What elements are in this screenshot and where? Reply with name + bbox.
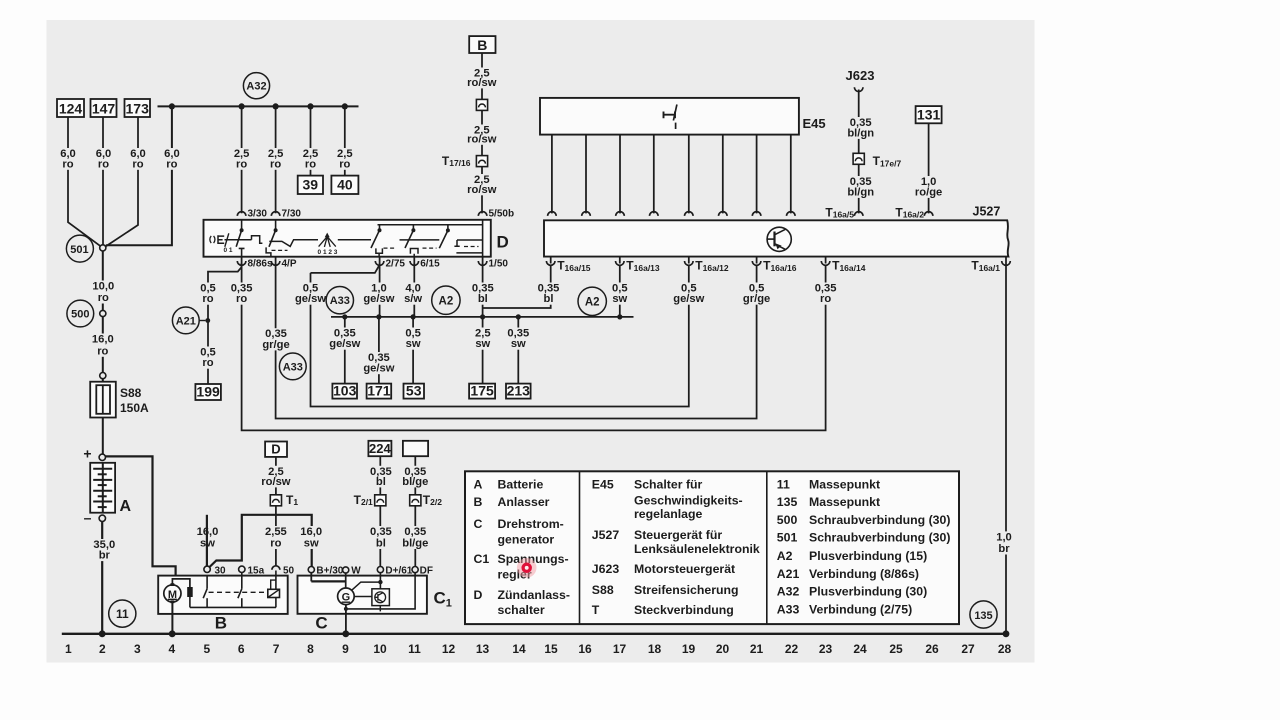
voltage regulator C1 bbox=[372, 589, 390, 606]
svg-text:A2: A2 bbox=[439, 295, 454, 307]
connector T2/2 bbox=[410, 495, 421, 506]
svg-text:500: 500 bbox=[71, 309, 89, 321]
wire 0,35 sw to 213 bbox=[517, 317, 519, 384]
svg-text:53: 53 bbox=[406, 383, 422, 399]
terminal box 124 bbox=[57, 99, 84, 117]
svg-text:bl/gn: bl/gn bbox=[847, 186, 874, 198]
svg-text:4: 4 bbox=[168, 642, 175, 656]
pin 8/86s bbox=[237, 261, 246, 265]
switch D pole 2/75 bbox=[379, 225, 381, 230]
connector T2/1 bbox=[375, 495, 386, 506]
pin T16a/13 stub bbox=[619, 257, 621, 264]
svg-text:28: 28 bbox=[998, 642, 1012, 656]
svg-text:7: 7 bbox=[273, 642, 280, 656]
wire 1,0 br from T16a/1 to ground rail bbox=[1005, 257, 1007, 634]
switch D pole 7/30-4/P bbox=[275, 220, 277, 230]
terminal box 147 bbox=[91, 99, 117, 117]
pin T16a/15 stub bbox=[550, 257, 552, 264]
svg-text:s/w: s/w bbox=[404, 293, 422, 305]
svg-text:ro: ro bbox=[166, 158, 177, 170]
svg-text:131: 131 bbox=[917, 107, 941, 123]
legend table bbox=[465, 471, 959, 624]
junction battery ground bbox=[99, 630, 106, 637]
ground rail bbox=[62, 633, 1006, 635]
pin on J527 bbox=[787, 212, 796, 216]
transistor symbol in J527 bbox=[767, 227, 791, 251]
wire 35,0 br battery to ground rail bbox=[101, 521, 103, 634]
svg-text:schalter: schalter bbox=[498, 603, 545, 617]
svg-text:A32: A32 bbox=[777, 585, 800, 599]
svg-text:ro: ro bbox=[132, 158, 143, 170]
svg-text:ro: ro bbox=[62, 158, 73, 170]
svg-text:Lenksäulenelektronik: Lenksäulenelektronik bbox=[634, 542, 760, 556]
junction T16a/1 ground bbox=[1003, 630, 1010, 637]
wire E45 to J527 bbox=[619, 135, 621, 214]
switch symbol in E45 bbox=[664, 112, 676, 119]
svg-text:Anlasser: Anlasser bbox=[498, 495, 550, 509]
terminal B+/30 bbox=[308, 567, 314, 573]
junction on 15-bus bbox=[617, 314, 622, 319]
pin T16a/14 stub bbox=[825, 257, 827, 264]
pin 2/75 bbox=[375, 261, 384, 265]
svg-text:J623: J623 bbox=[592, 562, 620, 576]
connection A33 (2/75) lower bbox=[279, 353, 306, 380]
switch D position selector 0123 bbox=[325, 233, 330, 238]
svg-text:0 1 2 3: 0 1 2 3 bbox=[318, 249, 338, 256]
wire 4,0 s/w from 6/15 bbox=[413, 263, 415, 317]
svg-text:135: 135 bbox=[777, 495, 798, 509]
svg-text:2/75: 2/75 bbox=[386, 258, 406, 269]
svg-text:D: D bbox=[474, 588, 483, 602]
svg-text:Massepunkt: Massepunkt bbox=[809, 478, 880, 492]
svg-text:Schraubverbindung (30): Schraubverbindung (30) bbox=[809, 531, 950, 545]
svg-text:11: 11 bbox=[408, 642, 421, 656]
svg-text:ro: ro bbox=[339, 158, 350, 170]
pin at J623 bbox=[854, 87, 863, 91]
svg-text:E45: E45 bbox=[592, 478, 614, 492]
junction on 15-bus bbox=[342, 314, 347, 319]
svg-text:D+/61: D+/61 bbox=[385, 565, 412, 576]
wire G to ground rail bbox=[345, 605, 347, 634]
connector T1 bbox=[270, 495, 281, 506]
svg-text:J527: J527 bbox=[973, 204, 1001, 218]
svg-text:ge/sw: ge/sw bbox=[363, 363, 394, 375]
generator C bbox=[298, 576, 427, 614]
svg-text:ro: ro bbox=[270, 538, 281, 550]
svg-text:501: 501 bbox=[70, 244, 88, 256]
pin 8/86s stub bbox=[241, 257, 243, 264]
wire M to ground rail bbox=[171, 602, 173, 634]
svg-text:ro: ro bbox=[98, 292, 109, 304]
svg-text:Drehstrom-: Drehstrom- bbox=[498, 517, 564, 531]
svg-text:2: 2 bbox=[99, 642, 106, 656]
wire 0,5 ge/sw to T16a/12 bbox=[311, 265, 689, 407]
svg-text:B: B bbox=[215, 614, 227, 633]
wire 16,0 sw starter 30 to generator B+/30 bbox=[210, 515, 312, 567]
starter contact 15a bbox=[241, 573, 243, 589]
ground point 135 label bbox=[970, 601, 997, 628]
pin 5/50b bbox=[478, 212, 487, 216]
svg-text:A2: A2 bbox=[777, 549, 793, 563]
svg-text:Geschwindigkeits-: Geschwindigkeits- bbox=[634, 494, 743, 508]
svg-text:15a: 15a bbox=[248, 565, 265, 576]
pin 7/30 bbox=[271, 212, 280, 216]
wire E45 to J527 bbox=[551, 135, 553, 214]
svg-text:173: 173 bbox=[126, 100, 150, 116]
svg-text:4/P: 4/P bbox=[282, 258, 297, 269]
svg-text:0,35: 0,35 bbox=[404, 526, 426, 538]
terminal box 173 bbox=[125, 99, 151, 117]
svg-text:C: C bbox=[315, 614, 327, 633]
svg-text:ro: ro bbox=[305, 158, 316, 170]
svg-text:0,35: 0,35 bbox=[370, 526, 392, 538]
pin 6/15 stub bbox=[413, 257, 415, 264]
svg-text:ro: ro bbox=[202, 293, 213, 305]
svg-text:ge/sw: ge/sw bbox=[673, 293, 704, 305]
svg-text:9: 9 bbox=[342, 642, 349, 656]
svg-text:10: 10 bbox=[373, 642, 387, 656]
switch D link rail to 50 bbox=[378, 224, 483, 226]
svg-text:Batterie: Batterie bbox=[498, 478, 544, 492]
pin T16a/5 bbox=[854, 212, 863, 216]
connection A2 (15) left bbox=[432, 286, 460, 314]
wire 6,0 ro from 124 bbox=[68, 117, 101, 246]
connection A2 (15) right bbox=[578, 287, 606, 315]
junction on 30-bus bbox=[307, 103, 313, 109]
svg-text:Motorsteuergerät: Motorsteuergerät bbox=[634, 562, 735, 576]
svg-text:bl: bl bbox=[376, 476, 386, 488]
svg-text:1,0: 1,0 bbox=[996, 531, 1012, 543]
wire 0,35 bl / 2,5 sw from 1/50 bbox=[482, 263, 484, 383]
svg-text:A: A bbox=[474, 478, 483, 492]
wire battery branch down to 30 bbox=[206, 515, 208, 566]
pin on J527 bbox=[548, 212, 557, 216]
junction on 15-bus bbox=[516, 314, 521, 319]
wire 6,0 ro from 147 bbox=[102, 117, 104, 245]
generator W internal bbox=[345, 573, 347, 588]
svg-text:135: 135 bbox=[974, 610, 992, 622]
switch D coupling dashes bbox=[272, 249, 288, 251]
wire E45 to J527 bbox=[790, 135, 792, 214]
ignition starter switch D bbox=[204, 220, 491, 257]
svg-text:A33: A33 bbox=[283, 361, 303, 373]
svg-text:B: B bbox=[474, 495, 483, 509]
starter solenoid contact bbox=[268, 589, 280, 597]
terminal 30 bbox=[204, 566, 210, 572]
svg-text:sw: sw bbox=[511, 338, 526, 350]
svg-text:19: 19 bbox=[682, 642, 696, 656]
svg-text:224: 224 bbox=[369, 441, 391, 456]
svg-text:0 1: 0 1 bbox=[223, 247, 232, 254]
junction on 30-bus bbox=[239, 103, 245, 109]
pin on J527 bbox=[685, 212, 694, 216]
svg-text:ge/sw: ge/sw bbox=[329, 338, 360, 350]
terminal box 103 bbox=[332, 384, 357, 399]
svg-text:Massepunkt: Massepunkt bbox=[809, 495, 880, 509]
svg-text:sw: sw bbox=[304, 538, 319, 550]
wire 30-bus bbox=[158, 105, 359, 107]
svg-text:ro/sw: ro/sw bbox=[467, 184, 497, 196]
svg-text:C1: C1 bbox=[474, 552, 490, 566]
svg-text:14: 14 bbox=[512, 642, 526, 656]
svg-text:ro: ro bbox=[202, 357, 213, 369]
starter internal bus bbox=[190, 606, 276, 608]
terminal 50 bbox=[272, 566, 280, 570]
wire E45 to J527 bbox=[688, 135, 690, 214]
junction on 15-bus bbox=[376, 314, 381, 319]
svg-text:Plusverbindung (30): Plusverbindung (30) bbox=[809, 585, 927, 599]
screw connection 501 label bbox=[66, 235, 93, 262]
node 501 bbox=[100, 245, 106, 251]
svg-text:sw: sw bbox=[475, 338, 490, 350]
svg-text:B+/30: B+/30 bbox=[316, 565, 343, 576]
svg-text:6: 6 bbox=[238, 642, 245, 656]
pin T16a/16 bbox=[752, 261, 761, 265]
wire 0,35 bl 224 to D+/61 bbox=[379, 456, 381, 566]
svg-text:175: 175 bbox=[470, 383, 494, 399]
svg-text:sw: sw bbox=[406, 338, 421, 350]
svg-text:ro/sw: ro/sw bbox=[467, 133, 497, 145]
svg-text:A32: A32 bbox=[246, 81, 266, 93]
connector T17e/7 bbox=[853, 153, 864, 164]
svg-text:W: W bbox=[351, 565, 361, 576]
svg-text:A2: A2 bbox=[585, 297, 600, 309]
svg-text:40: 40 bbox=[337, 177, 353, 193]
regulator transistor bbox=[375, 592, 386, 603]
pin T16a/1 bbox=[1002, 261, 1011, 265]
cruise control switch E45 bbox=[540, 98, 799, 135]
svg-text:39: 39 bbox=[303, 177, 319, 193]
svg-text:B: B bbox=[477, 37, 487, 53]
wire 10,0 ro bbox=[102, 251, 104, 310]
svg-text:D: D bbox=[271, 442, 280, 457]
generator DF internal bbox=[346, 573, 415, 609]
battery plates bbox=[93, 463, 112, 513]
svg-text:–: – bbox=[84, 509, 92, 525]
pin 1/50 bbox=[478, 261, 487, 265]
wire 0,5 ro from 8/86s to 199 bbox=[208, 263, 242, 384]
screw connection 500 label bbox=[67, 300, 94, 327]
svg-text:Schraubverbindung (30): Schraubverbindung (30) bbox=[809, 513, 950, 527]
svg-text:26: 26 bbox=[925, 642, 939, 656]
svg-text:gr/ge: gr/ge bbox=[743, 293, 770, 305]
wire 15-bus (A2) bbox=[331, 316, 634, 318]
wire 2,5 ro/sw B to 5/50b bbox=[481, 53, 483, 213]
starter coupling dashes bbox=[209, 591, 268, 593]
svg-text:ro: ro bbox=[236, 293, 247, 305]
connector T17/16 bbox=[476, 156, 487, 167]
terminal box 224 bbox=[368, 441, 391, 456]
svg-text:23: 23 bbox=[819, 642, 833, 656]
svg-text:16,0: 16,0 bbox=[300, 526, 322, 538]
svg-text:27: 27 bbox=[961, 642, 975, 656]
svg-text:1/50: 1/50 bbox=[489, 258, 509, 269]
wire bbox=[102, 379, 104, 382]
svg-text:bl: bl bbox=[376, 538, 386, 550]
svg-text:ro/sw: ro/sw bbox=[261, 476, 291, 488]
svg-text:Streifensicherung: Streifensicherung bbox=[634, 583, 739, 597]
svg-text:5: 5 bbox=[203, 642, 210, 656]
wire E45 to J527 bbox=[756, 135, 758, 214]
wire 1,0 ro/ge 131 to T16a/2 bbox=[928, 123, 930, 213]
strip fuse S88 150A bbox=[90, 382, 116, 418]
starter B bbox=[158, 576, 288, 614]
pin on J527 bbox=[616, 212, 625, 216]
terminal box B (starter +) bbox=[469, 36, 495, 53]
svg-text:S88: S88 bbox=[120, 386, 142, 400]
svg-text:C: C bbox=[474, 517, 483, 531]
steering column electronics control unit J527 bbox=[544, 220, 1009, 256]
pin T16a/12 bbox=[685, 261, 694, 265]
svg-text:sw: sw bbox=[612, 293, 627, 305]
svg-text:Verbindung (8/86s): Verbindung (8/86s) bbox=[809, 567, 919, 581]
svg-text:10,0: 10,0 bbox=[92, 281, 114, 293]
svg-text:gr/ge: gr/ge bbox=[262, 339, 289, 351]
pin T16a/13 bbox=[616, 261, 625, 265]
svg-text:E45: E45 bbox=[803, 116, 826, 131]
svg-text:11: 11 bbox=[116, 607, 129, 621]
svg-text:30: 30 bbox=[215, 565, 227, 576]
svg-text:15: 15 bbox=[544, 642, 558, 656]
svg-text:50: 50 bbox=[283, 565, 295, 576]
svg-text:A21: A21 bbox=[777, 567, 800, 581]
connection A33 (2/75) bbox=[326, 287, 353, 314]
field winding bbox=[189, 597, 191, 607]
legend divider 1 bbox=[579, 471, 581, 624]
pin 2/75 stub bbox=[379, 257, 381, 264]
svg-text:Steckverbindung: Steckverbindung bbox=[634, 603, 734, 617]
terminal box 131 bbox=[916, 106, 942, 123]
svg-text:T: T bbox=[592, 603, 600, 617]
wire 2,5 ro to terminal 39 bbox=[310, 106, 312, 175]
generator G symbol bbox=[338, 588, 355, 605]
starter contact 30 bbox=[206, 576, 208, 589]
connection A21 (8/86s) bbox=[172, 307, 199, 334]
connector bbox=[476, 99, 487, 110]
battery A bbox=[90, 463, 115, 513]
terminal box 53 bbox=[404, 384, 425, 399]
svg-text:+: + bbox=[83, 445, 91, 461]
svg-text:J527: J527 bbox=[592, 528, 620, 542]
svg-text:bl: bl bbox=[544, 293, 554, 305]
svg-text:bl: bl bbox=[478, 293, 488, 305]
switch D contact wave bbox=[269, 240, 318, 247]
wire 2,5 ro/sw - 2,55 ro to starter 50 bbox=[275, 457, 277, 566]
pin on J527 bbox=[582, 212, 591, 216]
connection A32 (plus connection 30) bbox=[243, 73, 269, 99]
svg-text:24: 24 bbox=[853, 642, 867, 656]
svg-text:A21: A21 bbox=[176, 315, 196, 327]
svg-text:8/86s: 8/86s bbox=[248, 258, 273, 269]
terminal box D bbox=[265, 442, 287, 457]
pin on J527 bbox=[752, 212, 761, 216]
junction on 15-bus bbox=[411, 314, 416, 319]
svg-text:regelanlage: regelanlage bbox=[634, 507, 703, 521]
pin 4/P stub bbox=[275, 257, 277, 264]
node above fuse S88 bbox=[100, 373, 106, 379]
terminal box 175 bbox=[469, 384, 495, 399]
svg-text:ro: ro bbox=[97, 345, 108, 357]
svg-text:171: 171 bbox=[367, 383, 391, 399]
terminal box 199 bbox=[195, 384, 221, 400]
junction on 30-bus bbox=[169, 103, 175, 109]
svg-text:ro: ro bbox=[270, 158, 281, 170]
svg-text:16,0: 16,0 bbox=[92, 334, 114, 346]
diagram gray canvas bbox=[47, 20, 1035, 663]
wire 6,0 ro from 30-bus to node 501 bbox=[106, 106, 172, 245]
terminal box 213 bbox=[506, 384, 531, 399]
wire 0,35 bl/ge to DF bbox=[414, 456, 416, 566]
svg-text:17: 17 bbox=[613, 642, 627, 656]
svg-text:150A: 150A bbox=[120, 401, 149, 415]
junction on 30-bus bbox=[342, 103, 348, 109]
node 500 bbox=[100, 310, 106, 316]
svg-text:3: 3 bbox=[134, 642, 141, 656]
svg-text:501: 501 bbox=[777, 531, 798, 545]
battery plus terminal bbox=[99, 454, 105, 460]
wire 50 into solenoid bbox=[275, 571, 277, 590]
red click cursor highlight bbox=[517, 558, 537, 578]
pin on J527 bbox=[650, 212, 659, 216]
svg-text:22: 22 bbox=[785, 642, 799, 656]
junction starter ground bbox=[169, 630, 176, 637]
svg-text:25: 25 bbox=[889, 642, 903, 656]
pin T16a/2 bbox=[924, 212, 933, 216]
svg-text:124: 124 bbox=[59, 100, 83, 116]
terminal W bbox=[343, 567, 349, 573]
switch D pole 6/15 bbox=[412, 225, 414, 230]
svg-text:A33: A33 bbox=[330, 295, 350, 307]
svg-text:br: br bbox=[998, 543, 1010, 555]
svg-text:ro/ge: ro/ge bbox=[915, 186, 942, 198]
svg-text:2,55: 2,55 bbox=[265, 526, 287, 538]
svg-text:21: 21 bbox=[750, 642, 764, 656]
switch D contact step bbox=[252, 236, 263, 244]
wire 0,5 sw to 53 bbox=[412, 317, 414, 384]
svg-text:500: 500 bbox=[777, 513, 798, 527]
svg-text:ge/sw: ge/sw bbox=[295, 293, 326, 305]
junction generator ground bbox=[342, 630, 349, 637]
wire 0,5 ge/sw branch from 2/75 bbox=[311, 266, 379, 273]
svg-text:generator: generator bbox=[498, 533, 555, 547]
svg-text:ro: ro bbox=[820, 293, 831, 305]
terminal box 171 bbox=[367, 384, 392, 399]
terminal DF bbox=[412, 567, 418, 573]
wire 2,5 ro to pin 3/30 bbox=[241, 106, 243, 213]
terminal box 39 bbox=[298, 176, 323, 194]
switch D contact line bbox=[338, 239, 371, 241]
pin 3/30 bbox=[237, 212, 246, 216]
wire 0,35 ge/sw to 103 bbox=[344, 317, 346, 384]
legend divider 2 bbox=[766, 471, 768, 624]
svg-text:Schalter für: Schalter für bbox=[634, 478, 703, 492]
svg-text:3/30: 3/30 bbox=[248, 208, 268, 219]
svg-text:11: 11 bbox=[777, 478, 790, 492]
wire 0,5 sw from T16a/13 bbox=[619, 265, 621, 317]
pin 1/50 stub bbox=[482, 257, 484, 264]
pin T16a/14 bbox=[821, 261, 830, 265]
svg-text:20: 20 bbox=[716, 642, 730, 656]
wire 0,35 ro from 8/86s to T16a/14 bbox=[242, 263, 826, 430]
wire battery plus to starter motor bbox=[105, 456, 176, 584]
wire E45 to J527 bbox=[653, 135, 655, 214]
wire E45 to J527 bbox=[722, 135, 724, 214]
svg-text:5/50b: 5/50b bbox=[489, 208, 515, 219]
switch D pole 3/30-8/86s bbox=[241, 220, 243, 230]
svg-text:bl/ge: bl/ge bbox=[402, 538, 428, 550]
svg-text:Verbindung (2/75): Verbindung (2/75) bbox=[809, 603, 912, 617]
svg-text:Steuergerät für: Steuergerät für bbox=[634, 528, 722, 542]
